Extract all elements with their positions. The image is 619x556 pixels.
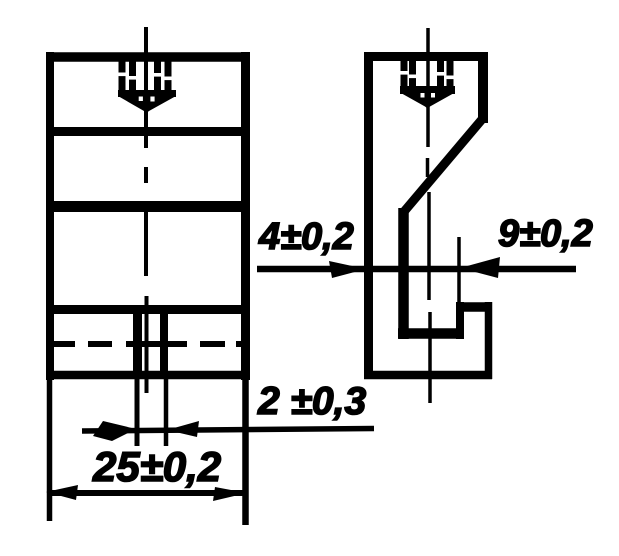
svg-text:2 ±0,3: 2 ±0,3 xyxy=(257,380,366,423)
svg-text:9±0,2: 9±0,2 xyxy=(498,213,593,255)
svg-text:25±0,2: 25±0,2 xyxy=(92,443,221,490)
svg-text:4±0,2: 4±0,2 xyxy=(258,216,354,258)
